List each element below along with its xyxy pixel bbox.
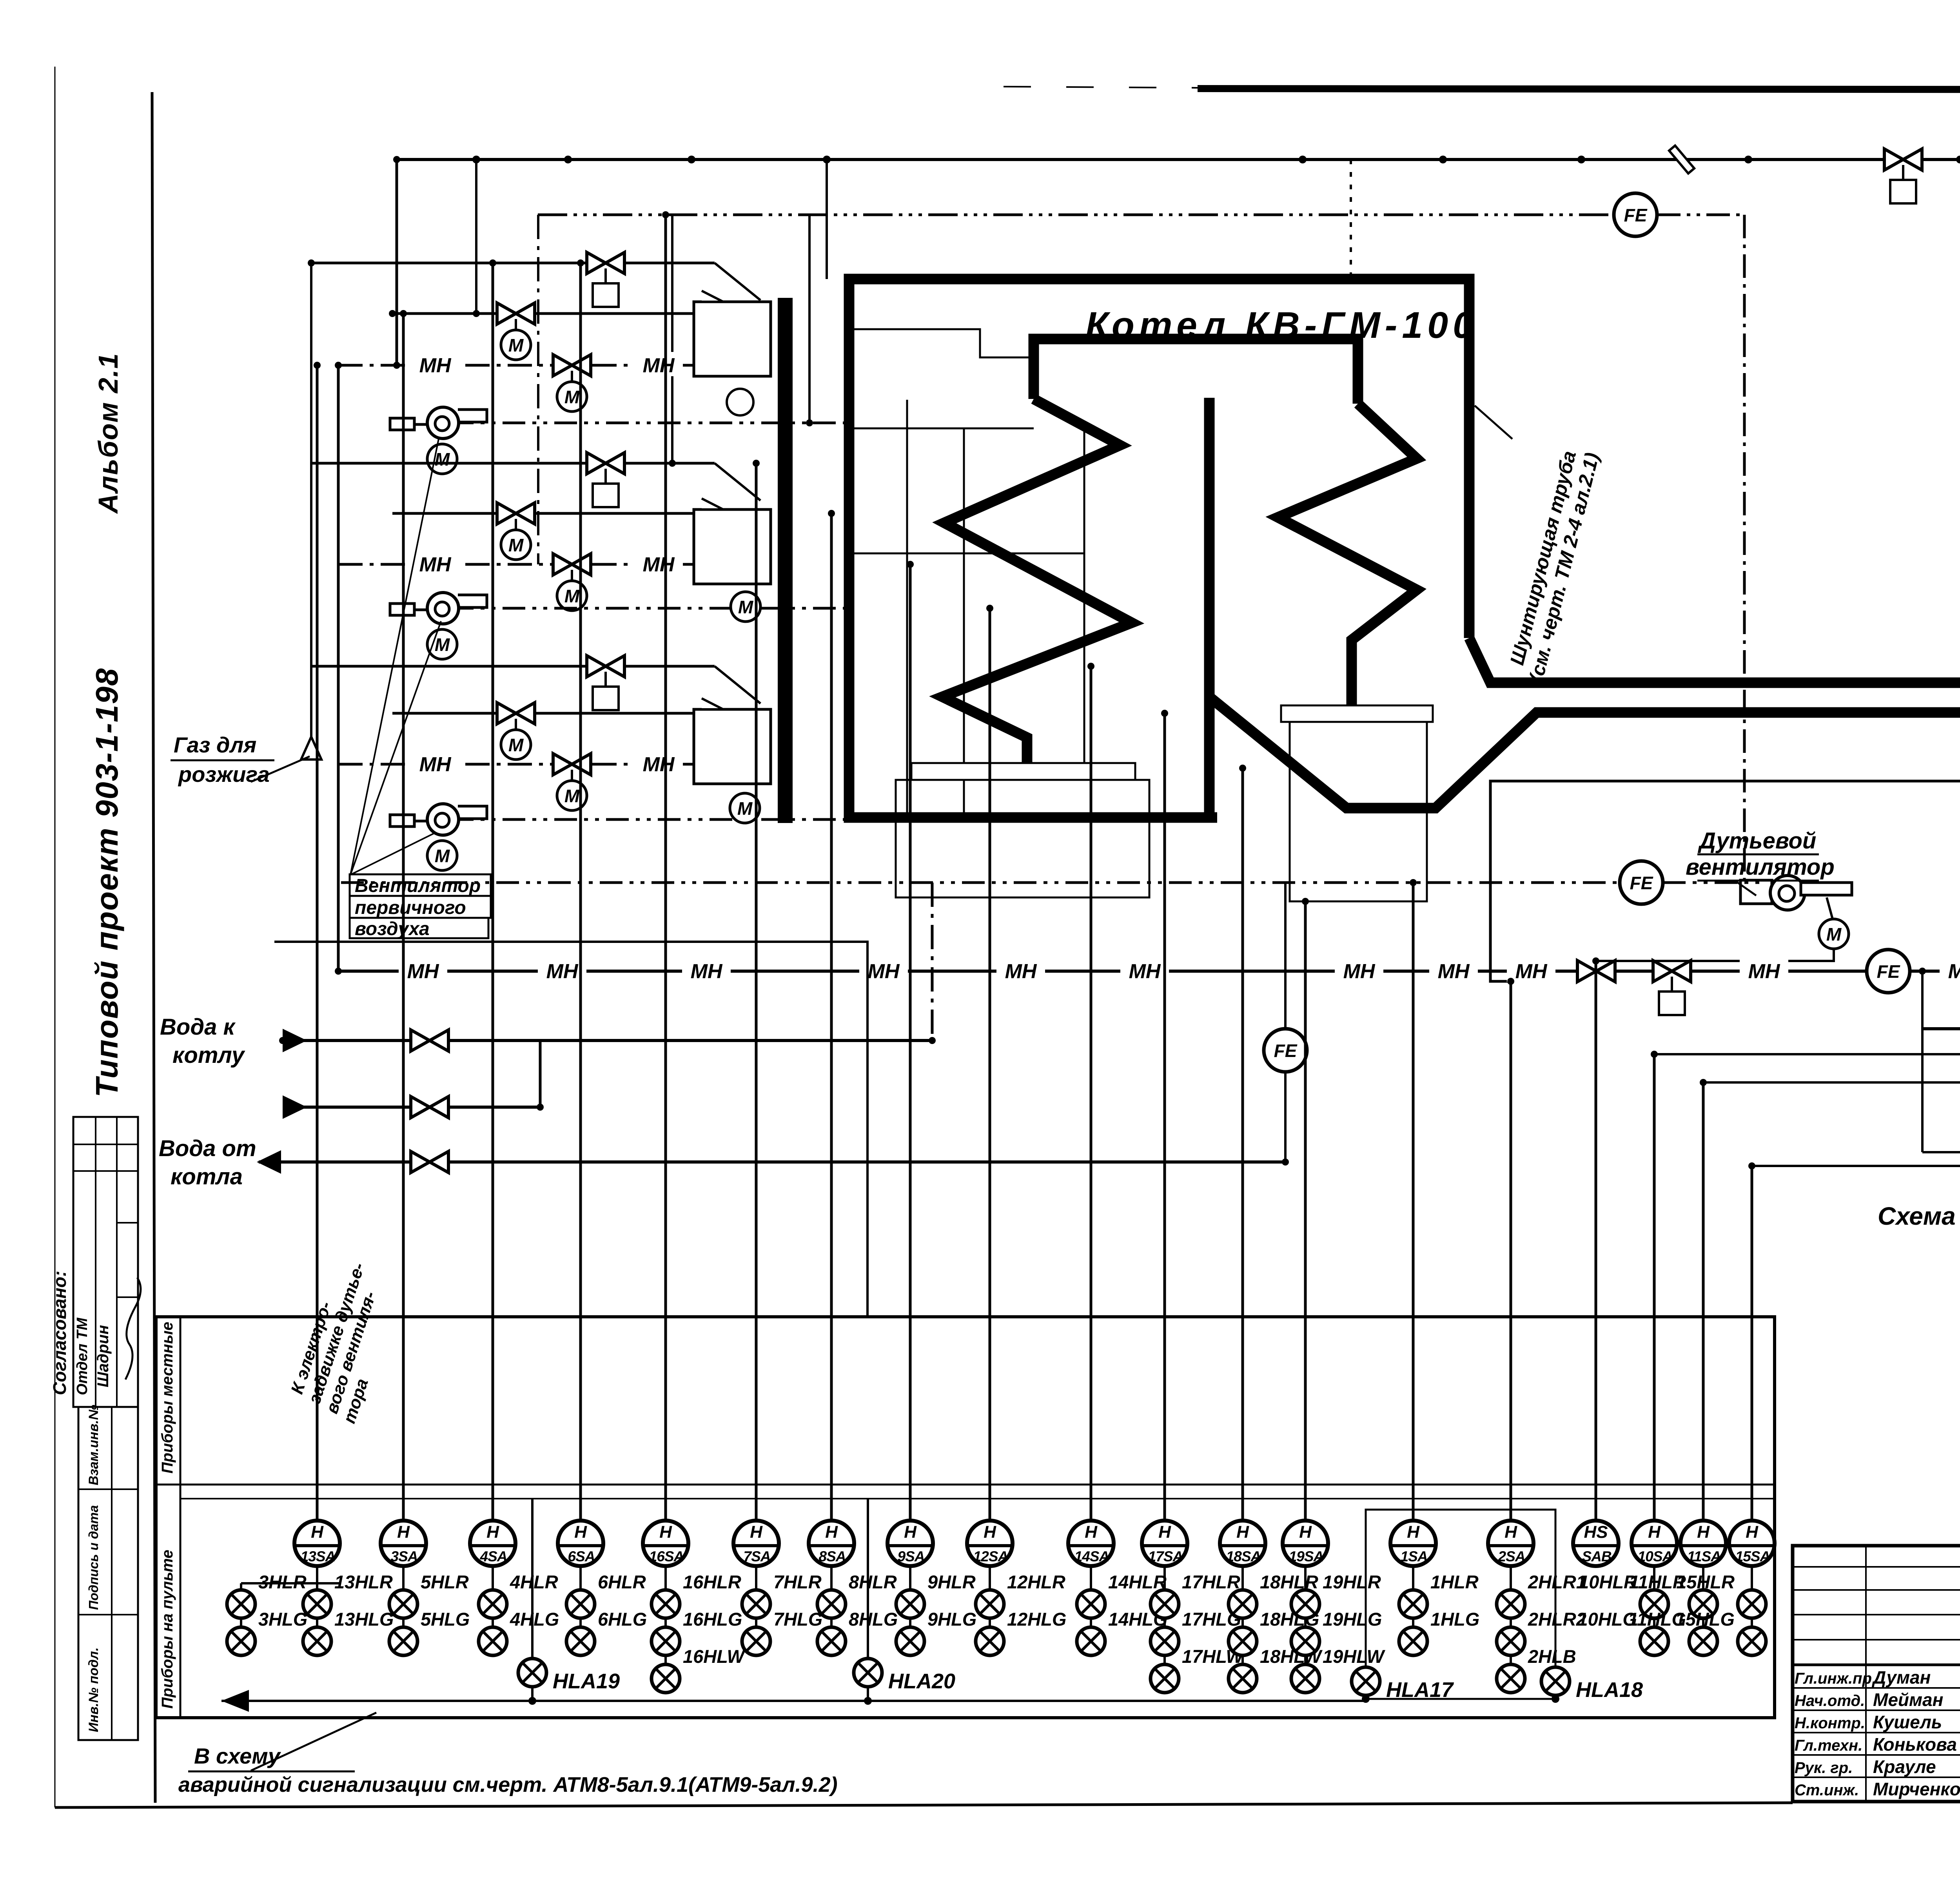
- svg-text:Крауле: Крауле: [1873, 1757, 1936, 1777]
- lamp 4HLR: [479, 1590, 507, 1618]
- svg-text:МН: МН: [407, 960, 439, 983]
- svg-text:M: M: [508, 335, 524, 355]
- lamp 13HLR: [303, 1590, 331, 1618]
- signal wire column to 18SA: [1241, 768, 1244, 1521]
- МН label on line: [411, 352, 459, 376]
- selector switch H/4SA: [470, 1521, 515, 1566]
- svg-text:Мирченко: Мирченко: [1873, 1779, 1960, 1799]
- svg-text:МН: МН: [868, 960, 900, 983]
- sight glass burner 1: [727, 389, 753, 415]
- riser x863 to fuel line: [337, 365, 340, 971]
- burner group 3 fan discharge line: [451, 818, 847, 821]
- selector switch H/8SA: [809, 1521, 854, 1566]
- svg-text:1SA: 1SA: [1401, 1548, 1428, 1564]
- svg-text:H: H: [1236, 1523, 1249, 1542]
- burner 2 box: [694, 509, 771, 584]
- lamp 10HLG: [1640, 1627, 1668, 1655]
- lamp HLA20: [854, 1659, 882, 1687]
- svg-text:МН: МН: [419, 753, 452, 776]
- wire from blower motor: [1596, 949, 1834, 961]
- signal wire column to 17SA: [1163, 713, 1166, 1521]
- lamp 9HLR: [896, 1590, 924, 1618]
- svg-text:M: M: [508, 735, 524, 755]
- M circle burner 3: [730, 793, 760, 823]
- svg-text:5HLG: 5HLG: [421, 1609, 470, 1630]
- МН label on line: [1120, 958, 1169, 982]
- svg-text:Газ для: Газ для: [174, 732, 256, 757]
- svg-text:17SA: 17SA: [1148, 1548, 1183, 1564]
- gas supply line to boiler: [397, 158, 1960, 161]
- instrument panel box: [156, 1317, 1775, 1718]
- svg-text:M: M: [435, 634, 450, 655]
- svg-text:H: H: [1746, 1523, 1759, 1542]
- dash-dot riser x1373: [537, 215, 539, 564]
- blower fan (Dutyevoy ventilator): [1740, 876, 1852, 910]
- svg-text:3HLG: 3HLG: [258, 1609, 307, 1630]
- lamp 9HLG: [896, 1627, 924, 1655]
- svg-text:Вода к: Вода к: [160, 1014, 236, 1040]
- svg-text:1HLG: 1HLG: [1430, 1609, 1479, 1630]
- МН label on line: [411, 751, 459, 775]
- svg-text:МН: МН: [419, 553, 452, 576]
- FE impulse dash-dot line upper: [538, 214, 1614, 216]
- svg-text:6SA: 6SA: [568, 1548, 595, 1564]
- svg-text:Отдел ТМ: Отдел ТМ: [74, 1317, 91, 1395]
- furnace screen zigzag left: [942, 399, 1132, 763]
- burner 2 ignition valve: [497, 503, 535, 524]
- signal wire column to 6SA: [579, 263, 582, 1521]
- svg-text:аварийной сигнализации см.чер: аварийной сигнализации см.черт. АТМ8-5ал…: [178, 1773, 838, 1796]
- gas line junction: [823, 156, 831, 163]
- water line riser: [539, 1041, 542, 1107]
- riser x1715: [671, 215, 673, 463]
- junction: [335, 968, 342, 975]
- wire to lamp HLA20: [867, 1499, 869, 1701]
- burner 2 flag: [702, 499, 723, 509]
- furnace partition wall: [1204, 398, 1215, 818]
- wire from exhauster motor to panel: [1490, 781, 1960, 981]
- svg-text:H: H: [1504, 1523, 1517, 1542]
- lamp 1HLR: [1399, 1590, 1427, 1618]
- lamp 19HLW: [1291, 1664, 1319, 1693]
- flue duct bottom line: [1209, 697, 1960, 808]
- svg-text:9HLR: 9HLR: [927, 1572, 976, 1592]
- dotted drop to boiler top: [1350, 160, 1352, 279]
- lamp 17HLG: [1151, 1627, 1179, 1655]
- svg-text:H: H: [904, 1523, 917, 1542]
- lamp 2HLR1: [1497, 1590, 1525, 1618]
- svg-text:Конькова: Конькова: [1873, 1734, 1957, 1755]
- lamp 8HLG: [817, 1627, 846, 1655]
- МН label on line: [538, 958, 586, 982]
- svg-text:4HLR: 4HLR: [510, 1572, 558, 1592]
- lamp 2HLR2: [1497, 1627, 1525, 1655]
- svg-text:Вода от: Вода от: [159, 1136, 256, 1161]
- МН label on line: [1740, 958, 1788, 982]
- archive stamp table: [78, 1407, 138, 1740]
- svg-text:МН: МН: [1005, 960, 1037, 983]
- junction: [389, 310, 396, 317]
- svg-text:M: M: [508, 535, 524, 555]
- svg-text:Котел КВ-ГМ-100: Котел КВ-ГМ-100: [1085, 305, 1478, 346]
- leader gaz dlya rozhiga: [251, 756, 310, 782]
- svg-text:первичного: первичного: [355, 897, 466, 918]
- svg-text:19HLG: 19HLG: [1323, 1609, 1382, 1630]
- water to boiler line 2: [283, 1106, 540, 1109]
- motor M of primary air fan 2: [427, 629, 457, 659]
- svg-text:7HLR: 7HLR: [773, 1572, 822, 1592]
- lamp 18HLG: [1229, 1627, 1257, 1655]
- selector switch H/12SA: [967, 1521, 1013, 1566]
- svg-text:SAB: SAB: [1582, 1548, 1611, 1564]
- lamp 16HLR: [652, 1590, 680, 1618]
- svg-text:Приборы на пульте: Приборы на пульте: [159, 1550, 176, 1709]
- svg-text:Н.контр.: Н.контр.: [1795, 1715, 1865, 1732]
- leader to fan 2: [350, 621, 441, 875]
- riser x2109: [826, 160, 828, 279]
- furnace inner thin line 4: [851, 553, 1084, 555]
- svg-text:19HLR: 19HLR: [1323, 1572, 1381, 1592]
- lamp 13HLG: [303, 1627, 331, 1655]
- svg-text:МН: МН: [643, 354, 675, 377]
- lamp 10HLR: [1640, 1590, 1668, 1618]
- signal wire column to SAB: [1595, 961, 1597, 1521]
- FE flow element water: [1264, 1029, 1307, 1072]
- lamp 5HLR: [389, 1590, 417, 1618]
- burner 1 box: [694, 302, 771, 376]
- gas riser x1012: [396, 160, 398, 365]
- burner 3 air damper valve: [553, 754, 591, 775]
- svg-text:H: H: [825, 1523, 838, 1542]
- lamp 3HLR: [227, 1590, 255, 1618]
- svg-text:Гл.инж.пр: Гл.инж.пр: [1795, 1670, 1872, 1687]
- burner 3 box: [694, 709, 771, 784]
- МН label on line: [399, 958, 447, 982]
- gas line junction: [688, 156, 695, 163]
- M circle burner 2: [731, 592, 760, 622]
- primary air fan 3: [390, 804, 487, 835]
- junction: [1282, 1158, 1289, 1166]
- burner group 2 fan discharge line: [451, 607, 847, 610]
- svg-text:9HLG: 9HLG: [927, 1609, 976, 1630]
- svg-text:8HLG: 8HLG: [849, 1609, 898, 1630]
- svg-text:M: M: [564, 387, 580, 407]
- svg-text:4SA: 4SA: [480, 1548, 507, 1564]
- boiler top-left thin step: [851, 329, 1031, 357]
- signal wire column to 12SA: [989, 608, 991, 1521]
- lamp 4HLG: [479, 1627, 507, 1655]
- svg-text:6HLG: 6HLG: [598, 1609, 647, 1630]
- motor M of blower fan: [1819, 919, 1849, 949]
- burner group 3 gas line: [311, 665, 715, 668]
- burner 3 gas control valve: [587, 656, 624, 677]
- burner 1 flag: [702, 291, 723, 302]
- wire recirculation motor to panel: [1703, 1073, 1960, 1082]
- motor M of primary air fan 1: [427, 444, 457, 474]
- svg-text:12SA: 12SA: [973, 1548, 1008, 1564]
- svg-text:M: M: [738, 597, 754, 617]
- signal wire column to 15SA: [1751, 1166, 1753, 1521]
- svg-text:2HLB: 2HLB: [1528, 1646, 1576, 1667]
- svg-text:Рук. гр.: Рук. гр.: [1795, 1759, 1853, 1776]
- boiler KV-GM-100 outline (furnace walls): [849, 279, 1469, 818]
- МН label on line: [1335, 958, 1383, 982]
- split wire to extra lamps 3HL: [241, 1582, 339, 1584]
- svg-text:Согласовано:: Согласовано:: [49, 1271, 70, 1395]
- svg-text:Схема применяется для трех: Схема применяется для трех котлов.: [1878, 1202, 1960, 1230]
- svg-text:2SA: 2SA: [1498, 1548, 1525, 1564]
- svg-text:12HLG: 12HLG: [1007, 1609, 1067, 1630]
- svg-text:13HLR: 13HLR: [334, 1572, 393, 1592]
- svg-text:HLA19: HLA19: [553, 1670, 620, 1693]
- lamp 14HLR: [1077, 1590, 1105, 1618]
- water valve 3: [411, 1151, 448, 1173]
- lamp 8HLR: [817, 1590, 846, 1618]
- lamp 12HLR: [976, 1590, 1004, 1618]
- svg-text:3HLR: 3HLR: [258, 1572, 307, 1592]
- svg-text:Взам.инв.№: Взам.инв.№: [86, 1405, 101, 1485]
- signal wire column to 13SA: [316, 365, 319, 1521]
- gas control valve with actuator: [1884, 149, 1922, 170]
- air heater box: [1290, 722, 1427, 901]
- wire steam motor to panel: [1752, 1131, 1960, 1166]
- lamp 3HLG: [227, 1627, 255, 1655]
- leader blower: [1737, 882, 1756, 895]
- svg-text:H: H: [1697, 1523, 1710, 1542]
- svg-text:5HLR: 5HLR: [421, 1572, 469, 1592]
- selector switch H/6SA: [558, 1521, 603, 1566]
- furnace inner thin line 2b: [963, 428, 965, 818]
- title block outer: [1793, 1546, 1960, 1802]
- svg-text:H: H: [397, 1523, 410, 1542]
- lamp 19HLR: [1291, 1590, 1319, 1618]
- gas line junction: [1439, 156, 1447, 163]
- svg-text:FE: FE: [1877, 961, 1900, 982]
- lamp 1HLG: [1399, 1627, 1427, 1655]
- lamp 19HLG: [1291, 1627, 1319, 1655]
- alarm bus line: [221, 1700, 1366, 1702]
- lamp 11HLG: [1689, 1627, 1717, 1655]
- signal wire column to 1SA: [1412, 883, 1415, 1521]
- mazut control valve with actuator: [1653, 961, 1691, 982]
- lamp HLA18: [1541, 1667, 1570, 1695]
- burner group 3 ignition line: [392, 712, 694, 715]
- svg-text:8SA: 8SA: [819, 1548, 846, 1564]
- boiler outlet transition to flue: [1469, 638, 1960, 683]
- riser x1215: [475, 160, 477, 314]
- svg-text:FE: FE: [1624, 205, 1648, 225]
- svg-text:МН: МН: [643, 753, 675, 776]
- underline blower: [1697, 854, 1819, 856]
- gas line junction: [1744, 156, 1752, 163]
- lamp 6HLR: [566, 1590, 595, 1618]
- svg-text:воздуха: воздуха: [355, 919, 430, 939]
- junction: [393, 156, 400, 163]
- gas line junction: [564, 156, 572, 163]
- panel divider local/console: [156, 1484, 1775, 1486]
- arrow water to boiler 1: [283, 1029, 307, 1052]
- junction: [929, 1037, 936, 1044]
- svg-text:розжига: розжига: [178, 762, 270, 787]
- FE on water impulse riser: [1284, 883, 1287, 1162]
- junction: [669, 460, 676, 467]
- burner 1 gas control valve: [587, 252, 624, 274]
- svg-text:Гл.техн.: Гл.техн.: [1795, 1737, 1862, 1754]
- stamp signature squiggle: [125, 1278, 141, 1379]
- svg-text:16HLG: 16HLG: [683, 1609, 742, 1630]
- svg-text:4HLG: 4HLG: [510, 1609, 559, 1630]
- selector switch H/15SA: [1729, 1521, 1775, 1566]
- svg-text:15SA: 15SA: [1735, 1548, 1770, 1564]
- burner grate strip: [911, 763, 1135, 780]
- panel label column divider: [180, 1317, 181, 1718]
- svg-text:19HLW: 19HLW: [1323, 1646, 1385, 1667]
- selector switch HS/SAB: [1573, 1521, 1619, 1566]
- junction: [537, 1104, 544, 1111]
- selector switch H/7SA: [733, 1521, 779, 1566]
- burner 3 ignition valve: [497, 703, 535, 724]
- mazut recirculation line: [1921, 971, 1924, 1152]
- water valve 1: [411, 1030, 448, 1051]
- МН label on line: [1429, 958, 1478, 982]
- svg-text:Типовой проект 903-1-198: Типовой проект 903-1-198: [89, 668, 124, 1097]
- leader to alarm bus: [251, 1713, 376, 1771]
- svg-text:10SA: 10SA: [1638, 1548, 1673, 1564]
- svg-text:13HLG: 13HLG: [334, 1609, 394, 1630]
- lamp 14HLG: [1077, 1627, 1105, 1655]
- selector switch H/10SA: [1632, 1521, 1677, 1566]
- selector switch H/16SA: [643, 1521, 688, 1566]
- lamp 17HLW: [1151, 1664, 1179, 1693]
- svg-text:МН: МН: [1515, 960, 1548, 983]
- water to boiler line 1: [283, 1039, 932, 1042]
- signal wire column to 10SA: [1653, 1054, 1656, 1521]
- gas line junction: [1299, 156, 1307, 163]
- convective shaft zigzag right: [1278, 404, 1417, 707]
- svg-text:16SA: 16SA: [649, 1548, 684, 1564]
- svg-text:13SA: 13SA: [301, 1548, 336, 1564]
- svg-text:3SA: 3SA: [391, 1548, 418, 1564]
- svg-text:M: M: [564, 586, 580, 606]
- frame border bottom: [55, 1803, 1793, 1807]
- МН label on line: [634, 551, 683, 575]
- svg-text:Ст.инж.: Ст.инж.: [1795, 1782, 1859, 1799]
- selector switch H/14SA: [1068, 1521, 1114, 1566]
- МН label on line: [996, 958, 1045, 982]
- svg-text:H: H: [1158, 1523, 1171, 1542]
- svg-text:14HLR: 14HLR: [1108, 1572, 1167, 1592]
- svg-text:H: H: [574, 1523, 587, 1542]
- svg-text:M: M: [1826, 924, 1842, 944]
- burner group 3 air line MN: [338, 763, 760, 766]
- svg-text:HLA18: HLA18: [1576, 1678, 1643, 1702]
- lamp 2HLB: [1497, 1664, 1525, 1693]
- gas for ignition entry: [310, 263, 312, 737]
- svg-text:H: H: [659, 1523, 672, 1542]
- water from boiler line: [259, 1160, 1285, 1164]
- frame border top faint left part: [1004, 87, 1198, 88]
- junction: [308, 259, 315, 266]
- motor M of primary air fan 3: [427, 841, 457, 870]
- gas line junction: [472, 156, 480, 163]
- burner 1 air damper valve: [553, 355, 591, 376]
- svg-text:Подпись и дата: Подпись и дата: [86, 1505, 101, 1610]
- signal wire column to 7SA: [755, 463, 758, 1521]
- lamp HLA17: [1352, 1667, 1380, 1695]
- gas line cock symbol: [1669, 145, 1694, 173]
- primary air fan 2: [390, 593, 487, 624]
- water valve 2: [411, 1097, 448, 1118]
- svg-text:Дутьевой: Дутьевой: [1697, 828, 1816, 854]
- svg-text:МН: МН: [546, 960, 579, 983]
- svg-text:HLA20: HLA20: [888, 1670, 955, 1693]
- gas line junction: [1577, 156, 1585, 163]
- svg-text:10HLR: 10HLR: [1579, 1572, 1637, 1592]
- svg-text:9SA: 9SA: [898, 1548, 925, 1564]
- selector switch H/11SA: [1681, 1521, 1726, 1566]
- air flow dash-dot-dot line: [341, 881, 1619, 884]
- arrow water to boiler 2: [283, 1095, 307, 1119]
- signal wire column to 4SA: [492, 263, 494, 1521]
- furnace inner thin line: [906, 400, 908, 818]
- svg-text:HLA17: HLA17: [1386, 1678, 1454, 1702]
- signal wire column to 9SA: [909, 564, 912, 1521]
- svg-text:14SA: 14SA: [1074, 1548, 1109, 1564]
- МН label on line: [411, 551, 459, 575]
- svg-text:19SA: 19SA: [1289, 1548, 1324, 1564]
- svg-text:МН: МН: [419, 354, 452, 377]
- svg-text:H: H: [486, 1523, 499, 1542]
- МН label on line: [1507, 958, 1555, 982]
- svg-text:МН: МН: [1948, 960, 1960, 983]
- svg-text:2HLR1: 2HLR1: [1528, 1572, 1586, 1592]
- sub-panel box around 1SA 2SA: [1366, 1510, 1555, 1699]
- svg-text:8HLR: 8HLR: [849, 1572, 897, 1592]
- svg-text:Приборы местные: Приборы местные: [159, 1322, 176, 1474]
- svg-text:Вентилятор: Вентилятор: [355, 876, 481, 896]
- МН label on line: [1940, 958, 1960, 982]
- sheet trim line left: [54, 67, 56, 1807]
- МН label on line: [682, 958, 731, 982]
- burner 3 flag: [702, 698, 723, 709]
- lamp 16HLW: [652, 1664, 680, 1693]
- svg-text:Альбом 2.1: Альбом 2.1: [93, 353, 123, 514]
- svg-text:МН: МН: [1748, 960, 1780, 983]
- lamp 7HLR: [742, 1590, 770, 1618]
- shunt pipe label (rotated): [1503, 445, 1603, 684]
- svg-text:вентилятор: вентилятор: [1686, 854, 1835, 880]
- riser x2065: [808, 215, 811, 423]
- label to electric gate valve of blower (rotated): [284, 1254, 406, 1426]
- steam line elbow: [1922, 1116, 1960, 1152]
- МН label on line: [634, 352, 683, 376]
- lamp 5HLG: [389, 1627, 417, 1655]
- staircase wire left: [274, 942, 867, 1317]
- junction: [393, 362, 400, 369]
- water riser to boiler (dash-dot): [931, 883, 934, 1041]
- lamp HLA19: [518, 1659, 546, 1687]
- shunt pipe leader line: [1475, 406, 1512, 439]
- lamp 16HLG: [652, 1627, 680, 1655]
- svg-text:1HLR: 1HLR: [1430, 1572, 1479, 1592]
- svg-text:M: M: [737, 798, 753, 819]
- svg-text:Думан: Думан: [1871, 1667, 1931, 1688]
- selector switch H/3SA: [381, 1521, 426, 1566]
- svg-text:FE: FE: [1630, 873, 1653, 893]
- burner group 2 ignition line: [392, 512, 694, 515]
- boiler front duct heavy bar: [778, 298, 793, 823]
- burner 2 gas drop: [715, 463, 760, 500]
